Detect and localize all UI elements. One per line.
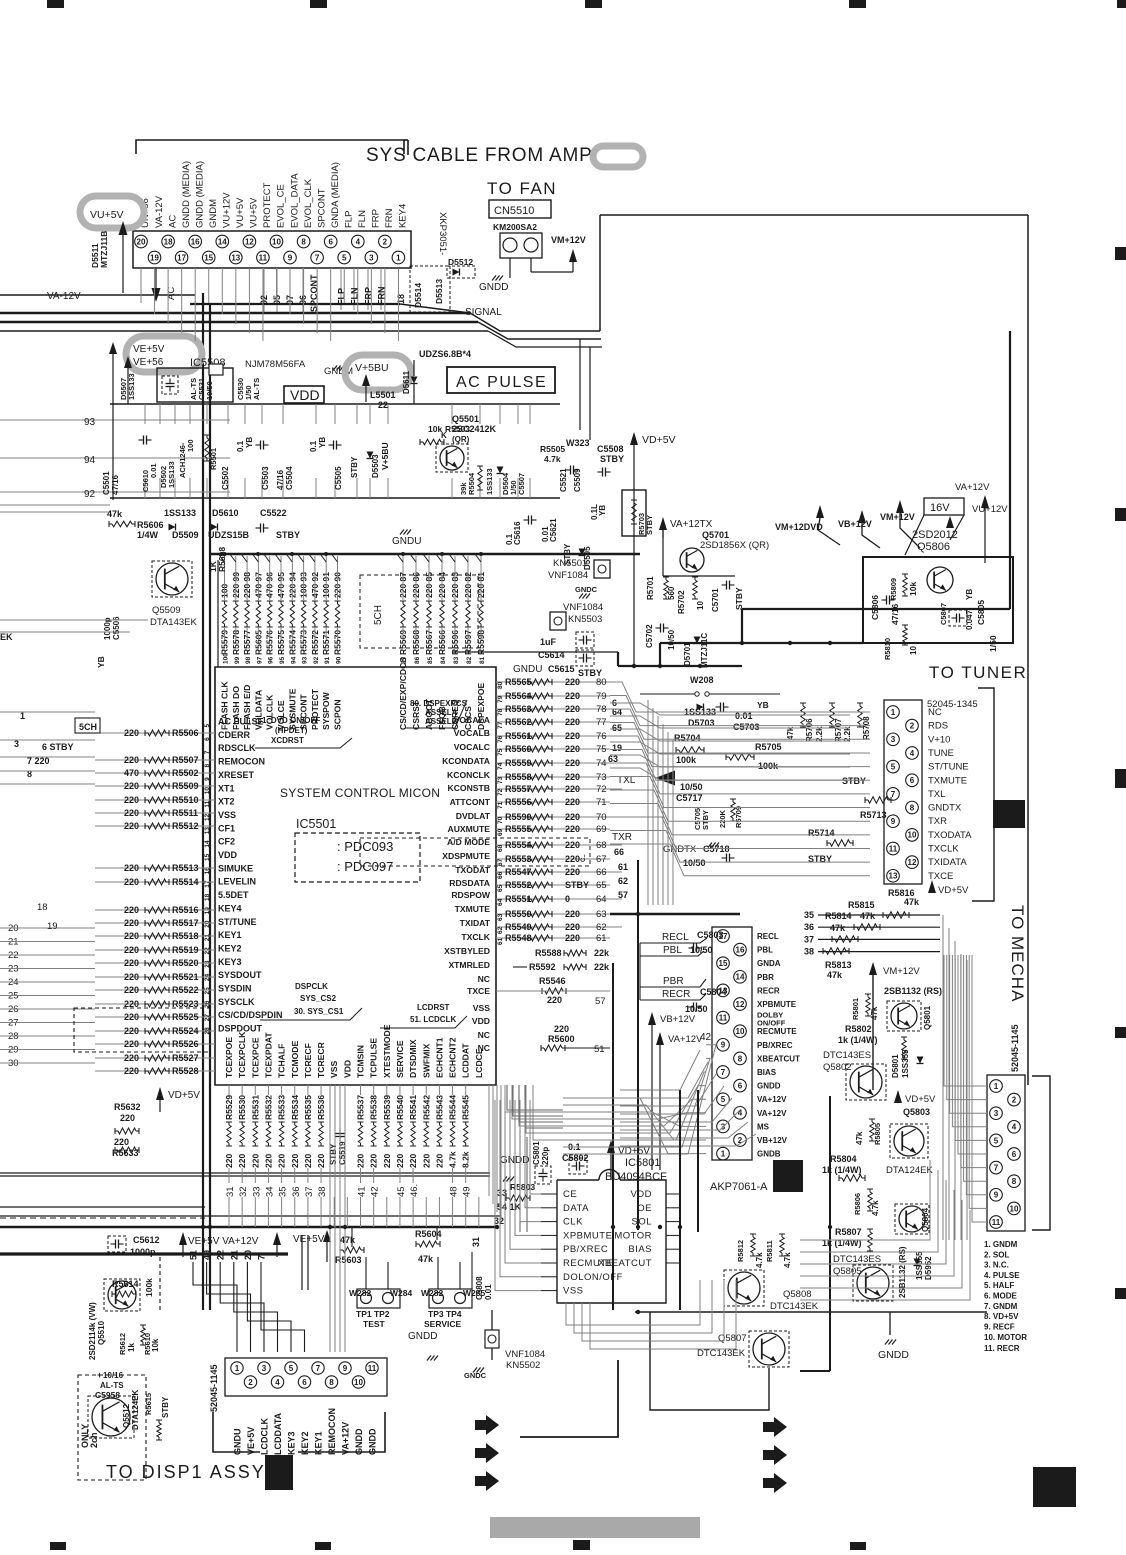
svg-text:VA+12V: VA+12V xyxy=(955,482,990,493)
svg-text:8: 8 xyxy=(301,237,306,246)
svg-text:VSS: VSS xyxy=(473,1003,490,1013)
svg-text:BIAS: BIAS xyxy=(757,1068,777,1077)
svg-text:1: 1 xyxy=(994,1082,999,1091)
svg-text:XTMRLED: XTMRLED xyxy=(448,960,490,970)
svg-text:0.047: 0.047 xyxy=(965,609,974,630)
svg-text:V+10: V+10 xyxy=(928,734,950,745)
svg-text:TXL: TXL xyxy=(928,789,945,800)
svg-text:R5709: R5709 xyxy=(734,806,743,828)
svg-text:RECL: RECL xyxy=(662,932,689,943)
svg-text:VU+5V: VU+5V xyxy=(90,209,124,221)
svg-text:R5708: R5708 xyxy=(862,716,871,740)
svg-text:R5805: R5805 xyxy=(873,1123,882,1145)
svg-text:GNDTX: GNDTX xyxy=(928,803,962,814)
svg-text:VDD: VDD xyxy=(472,1016,490,1026)
svg-text:D5503: D5503 xyxy=(371,454,380,478)
svg-text:17: 17 xyxy=(204,880,211,888)
svg-text:9. RECF: 9. RECF xyxy=(984,1322,1015,1331)
svg-text:TXODATA: TXODATA xyxy=(928,830,972,841)
svg-text:79: 79 xyxy=(497,695,504,703)
svg-text:15: 15 xyxy=(204,253,213,262)
svg-text:2: 2 xyxy=(248,1378,253,1387)
svg-text:PBL: PBL xyxy=(757,946,773,955)
svg-text:R5807: R5807 xyxy=(835,1227,862,1237)
svg-text:SIMUKE: SIMUKE xyxy=(218,863,253,873)
svg-text:68: 68 xyxy=(497,844,504,852)
svg-text:4: 4 xyxy=(356,237,361,246)
svg-text:NC: NC xyxy=(478,974,490,984)
svg-text:0.1: 0.1 xyxy=(309,440,318,452)
svg-text:2. SOL: 2. SOL xyxy=(984,1250,1009,1259)
svg-text:220: 220 xyxy=(124,985,139,995)
svg-text:GNDA (MEDIA): GNDA (MEDIA) xyxy=(330,162,341,228)
svg-text:GNDU: GNDU xyxy=(513,664,542,675)
svg-text:92: 92 xyxy=(84,489,96,500)
svg-text:C5801: C5801 xyxy=(532,1141,541,1165)
svg-text:VA+12V: VA+12V xyxy=(341,1422,351,1455)
svg-text:TXCE: TXCE xyxy=(928,871,953,882)
svg-text:D5513: D5513 xyxy=(434,279,444,304)
svg-text:TO FAN: TO FAN xyxy=(487,179,557,198)
svg-text:5CH: 5CH xyxy=(79,722,97,732)
svg-text:L5501: L5501 xyxy=(370,390,396,400)
svg-text:220: 220 xyxy=(124,795,139,805)
svg-text:KCONSTB: KCONSTB xyxy=(448,783,491,793)
svg-text:10: 10 xyxy=(696,601,705,610)
svg-text:C5615: C5615 xyxy=(548,664,575,674)
svg-text:31: 31 xyxy=(471,1237,481,1247)
svg-text:EK: EK xyxy=(0,632,13,642)
svg-text:Q5801: Q5801 xyxy=(923,1005,932,1030)
svg-text:W323: W323 xyxy=(566,438,590,448)
svg-text:R5518: R5518 xyxy=(172,931,199,941)
svg-text:ECHCNT2: ECHCNT2 xyxy=(448,1037,458,1078)
svg-text:0.1: 0.1 xyxy=(236,440,245,452)
svg-text:VU+12V: VU+12V xyxy=(222,192,233,228)
svg-text:R5520: R5520 xyxy=(172,958,199,968)
svg-text:220: 220 xyxy=(395,1154,405,1168)
svg-text:FRP: FRP xyxy=(371,209,382,228)
svg-text:SPCONT: SPCONT xyxy=(299,693,309,730)
svg-text:SYSMUTE: SYSMUTE xyxy=(287,688,297,730)
svg-text:51: 51 xyxy=(189,1250,199,1260)
svg-text:C5612: C5612 xyxy=(133,1235,160,1245)
svg-text:ABOOT: ABOOT xyxy=(424,698,434,730)
svg-text:V+5BU: V+5BU xyxy=(380,442,390,470)
svg-text:KN5503: KN5503 xyxy=(568,614,602,625)
svg-text:16: 16 xyxy=(736,945,745,954)
svg-text:R5603: R5603 xyxy=(335,1255,362,1265)
svg-text:220: 220 xyxy=(124,877,139,887)
svg-text:11: 11 xyxy=(992,1218,1001,1227)
svg-text:1k (1/4W): 1k (1/4W) xyxy=(822,1165,862,1175)
svg-text:1000p: 1000p xyxy=(130,1247,156,1257)
svg-text:TP1 TP2: TP1 TP2 xyxy=(356,1309,390,1319)
svg-text:PBR: PBR xyxy=(757,973,774,982)
svg-text:18: 18 xyxy=(164,237,173,246)
svg-text:GNDU: GNDU xyxy=(392,536,421,547)
svg-text:20: 20 xyxy=(243,1250,253,1260)
svg-text:LCDCE: LCDCE xyxy=(474,1048,484,1078)
svg-text:5: 5 xyxy=(342,253,347,262)
svg-text:57: 57 xyxy=(618,890,628,900)
svg-text:10. MOTOR: 10. MOTOR xyxy=(984,1333,1027,1342)
svg-text:220: 220 xyxy=(382,1154,392,1168)
svg-text:UDZS15B: UDZS15B xyxy=(208,530,250,540)
svg-text:9: 9 xyxy=(721,1041,726,1050)
svg-text:C5505: C5505 xyxy=(334,466,343,490)
svg-text:95: 95 xyxy=(279,656,286,664)
svg-text:1SS133: 1SS133 xyxy=(127,373,136,400)
svg-text:220: 220 xyxy=(124,958,139,968)
svg-text:TCPULSE: TCPULSE xyxy=(369,1038,379,1078)
svg-text:C5522: C5522 xyxy=(260,508,287,518)
svg-text:R5505: R5505 xyxy=(540,444,565,454)
svg-text:220: 220 xyxy=(277,1154,287,1168)
svg-text:TCMSIN: TCMSIN xyxy=(356,1045,366,1078)
svg-text:VA-12V: VA-12V xyxy=(154,195,165,228)
svg-text:CLK: CLK xyxy=(563,1217,583,1228)
svg-text:6: 6 xyxy=(738,1081,743,1090)
svg-text:66: 66 xyxy=(614,847,624,857)
svg-text:68: 68 xyxy=(596,840,607,851)
svg-text:TUNE: TUNE xyxy=(928,748,954,759)
svg-text:STBY: STBY xyxy=(276,530,300,540)
svg-text:VOCALB: VOCALB xyxy=(454,728,490,738)
svg-text:C5806: C5806 xyxy=(870,595,880,620)
svg-text:VA+12TX: VA+12TX xyxy=(670,519,713,530)
svg-text:92: 92 xyxy=(313,656,320,664)
svg-text:5. HALF: 5. HALF xyxy=(984,1281,1014,1290)
svg-text:CF2: CF2 xyxy=(218,837,235,847)
svg-text:36: 36 xyxy=(804,922,814,932)
svg-text:220: 220 xyxy=(250,1154,260,1168)
svg-text:70: 70 xyxy=(596,812,607,823)
svg-text:220: 220 xyxy=(565,867,580,877)
svg-text:2SC2412K: 2SC2412K xyxy=(452,424,497,434)
svg-text:64: 64 xyxy=(596,894,607,905)
svg-text:6 STBY: 6 STBY xyxy=(42,742,74,752)
svg-text:4: 4 xyxy=(1012,1123,1017,1132)
svg-text:YB: YB xyxy=(96,656,106,668)
svg-text:SCPON: SCPON xyxy=(333,699,343,730)
svg-text:CS/CD/EXP/CDCS: CS/CD/EXP/CDCS xyxy=(398,657,408,730)
svg-text:TXCLK: TXCLK xyxy=(928,844,959,855)
svg-text:ST/TUNE: ST/TUNE xyxy=(218,917,257,927)
svg-text:220: 220 xyxy=(565,797,580,807)
svg-text:R5538: R5538 xyxy=(369,1095,379,1120)
svg-text:VDD: VDD xyxy=(290,387,320,403)
svg-text:11: 11 xyxy=(889,844,898,853)
svg-text:TCEXPCE: TCEXPCE xyxy=(250,1037,260,1078)
svg-text:NJM78M56FA: NJM78M56FA xyxy=(245,359,306,370)
svg-text:63: 63 xyxy=(596,909,607,920)
svg-text:R5804: R5804 xyxy=(830,1154,857,1164)
svg-text:XDSPMUTE: XDSPMUTE xyxy=(442,851,490,861)
svg-text:64: 64 xyxy=(497,898,504,906)
svg-text:38: 38 xyxy=(804,947,814,957)
svg-text:R5545: R5545 xyxy=(461,1095,471,1120)
svg-text:PB/XREC: PB/XREC xyxy=(563,1244,608,1255)
svg-text:69: 69 xyxy=(497,828,504,836)
svg-text:1SS133: 1SS133 xyxy=(164,508,196,518)
svg-text:R5507: R5507 xyxy=(172,755,199,765)
svg-text:74: 74 xyxy=(497,762,504,770)
svg-text:77: 77 xyxy=(497,721,504,729)
svg-text:61: 61 xyxy=(497,937,504,945)
svg-text:47k: 47k xyxy=(870,1006,879,1020)
svg-text:RDSDATA: RDSDATA xyxy=(449,878,490,888)
svg-text:BU4094BCF: BU4094BCF xyxy=(605,1171,667,1183)
svg-text:47k: 47k xyxy=(827,970,843,980)
svg-text:48: 48 xyxy=(449,1186,460,1197)
svg-text:62: 62 xyxy=(596,922,607,933)
svg-text:19: 19 xyxy=(612,743,622,753)
svg-text:66: 66 xyxy=(596,867,607,878)
svg-text:220: 220 xyxy=(124,931,139,941)
svg-text:VM+12DVD: VM+12DVD xyxy=(775,522,823,532)
svg-text:PB/XREC: PB/XREC xyxy=(757,1041,793,1050)
svg-text:XKP3051-: XKP3051- xyxy=(437,212,448,255)
svg-text:XRESET: XRESET xyxy=(218,770,255,780)
svg-text:96: 96 xyxy=(268,656,275,664)
svg-text:7. GNDM: 7. GNDM xyxy=(984,1302,1018,1311)
svg-text:EVOL_CLK: EVOL_CLK xyxy=(303,178,314,228)
svg-text:Q5806: Q5806 xyxy=(917,541,950,553)
svg-text:1SS355: 1SS355 xyxy=(901,1049,910,1078)
svg-text:1/4W: 1/4W xyxy=(137,530,159,540)
svg-text:R5801: R5801 xyxy=(851,998,860,1020)
svg-text:FLN: FLN xyxy=(357,210,368,228)
svg-text:42: 42 xyxy=(700,1032,712,1043)
svg-text:220K: 220K xyxy=(718,809,727,828)
svg-text:12: 12 xyxy=(204,813,211,821)
svg-text:VA-12V: VA-12V xyxy=(47,291,81,302)
svg-text:220: 220 xyxy=(369,1154,379,1168)
svg-text:GNDD: GNDD xyxy=(479,282,508,293)
svg-text:2SD2114k (VW): 2SD2114k (VW) xyxy=(88,1302,97,1360)
svg-text:VB+12V: VB+12V xyxy=(660,1014,696,1025)
svg-text:FSQB: FSQB xyxy=(437,706,447,730)
svg-text:3: 3 xyxy=(262,1364,267,1373)
svg-text:11. RECR: 11. RECR xyxy=(984,1344,1020,1353)
svg-text:R5537: R5537 xyxy=(356,1095,366,1120)
svg-text:R5588: R5588 xyxy=(535,948,562,958)
svg-text:PROTECT: PROTECT xyxy=(310,688,320,730)
svg-text:220: 220 xyxy=(290,1154,300,1168)
svg-text:TCEXPDAT: TCEXPDAT xyxy=(263,1032,273,1078)
svg-text:2SB1132 (RS): 2SB1132 (RS) xyxy=(898,1246,907,1298)
svg-text:TO MECHA: TO MECHA xyxy=(1008,905,1027,1002)
svg-text:BIAS: BIAS xyxy=(628,1244,652,1255)
svg-text:R5522: R5522 xyxy=(172,985,199,995)
svg-text:220: 220 xyxy=(554,1024,569,1034)
svg-text:47/16: 47/16 xyxy=(111,474,120,495)
svg-text:220: 220 xyxy=(124,728,139,738)
svg-text:TO TUNER: TO TUNER xyxy=(929,663,1027,682)
svg-text:6: 6 xyxy=(1012,1150,1017,1159)
svg-text:D5611: D5611 xyxy=(402,370,411,394)
svg-text:1SS133: 1SS133 xyxy=(485,468,494,495)
svg-text:13: 13 xyxy=(889,872,898,881)
svg-text:10/50: 10/50 xyxy=(683,858,706,868)
svg-text:3: 3 xyxy=(994,1109,999,1118)
svg-text:EVOL_DATA: EVOL_DATA xyxy=(289,173,300,228)
svg-text:10: 10 xyxy=(354,1378,363,1387)
svg-text:R5701: R5701 xyxy=(646,576,655,600)
svg-text:SYS CABLE FROM AMP: SYS CABLE FROM AMP xyxy=(366,145,593,166)
svg-text:6: 6 xyxy=(302,1378,307,1387)
svg-text:47k: 47k xyxy=(107,509,123,519)
svg-text:R5813: R5813 xyxy=(825,960,852,970)
svg-text:65: 65 xyxy=(497,884,504,892)
svg-text:TXMUTE: TXMUTE xyxy=(455,904,491,914)
svg-text:R5543: R5543 xyxy=(434,1095,444,1120)
svg-text:63: 63 xyxy=(497,913,504,921)
svg-text:C5805: C5805 xyxy=(976,600,986,625)
svg-text:35: 35 xyxy=(278,1186,289,1197)
svg-text:47/16: 47/16 xyxy=(276,469,285,490)
svg-text:7: 7 xyxy=(316,1364,321,1373)
svg-text:1: 1 xyxy=(235,1364,240,1373)
svg-text:2: 2 xyxy=(910,722,915,731)
svg-text:TCRECF: TCRECF xyxy=(303,1043,313,1078)
svg-text:33: 33 xyxy=(251,1186,262,1197)
svg-text:18: 18 xyxy=(204,893,211,901)
svg-text:5: 5 xyxy=(289,1364,294,1373)
svg-text:4: 4 xyxy=(275,1378,280,1387)
svg-text:TXIDATA: TXIDATA xyxy=(928,857,967,868)
svg-text:C5621: C5621 xyxy=(549,518,558,542)
svg-text:9: 9 xyxy=(343,1364,348,1373)
svg-text:VD+5V: VD+5V xyxy=(938,885,969,896)
svg-text:DTC143EK: DTC143EK xyxy=(770,1301,819,1312)
svg-text:VD+5V: VD+5V xyxy=(642,434,676,446)
svg-text:R5536: R5536 xyxy=(316,1095,326,1120)
svg-text:22: 22 xyxy=(378,400,388,410)
svg-text:R5706: R5706 xyxy=(805,718,814,742)
svg-text:GNDA: GNDA xyxy=(757,959,781,968)
svg-text:4.7k: 4.7k xyxy=(871,1200,880,1216)
svg-text:220: 220 xyxy=(434,1154,444,1168)
svg-text:41: 41 xyxy=(357,1186,368,1197)
svg-text:KEY4: KEY4 xyxy=(218,903,242,913)
svg-text:76: 76 xyxy=(596,731,607,742)
svg-text:XPBMUTE: XPBMUTE xyxy=(563,1230,612,1241)
svg-text:32: 32 xyxy=(494,1216,504,1226)
svg-text:R5815: R5815 xyxy=(848,900,875,910)
svg-text:4.7k: 4.7k xyxy=(544,454,561,464)
svg-text:220: 220 xyxy=(124,1012,139,1022)
svg-text:76: 76 xyxy=(497,735,504,743)
svg-text:71: 71 xyxy=(497,801,504,809)
svg-text:70: 70 xyxy=(497,816,504,824)
svg-text:1. GNDM: 1. GNDM xyxy=(984,1240,1018,1249)
svg-text:R5615: R5615 xyxy=(144,1393,153,1415)
svg-text:VNF1084: VNF1084 xyxy=(548,570,588,581)
svg-text:220: 220 xyxy=(124,918,139,928)
svg-text:GNDD: GNDD xyxy=(354,1428,364,1455)
svg-text:10/50: 10/50 xyxy=(205,381,214,400)
svg-text:R5511: R5511 xyxy=(172,808,198,818)
svg-text:VDD: VDD xyxy=(218,850,238,860)
svg-text:R5702: R5702 xyxy=(677,590,686,614)
svg-text:220: 220 xyxy=(421,1154,431,1168)
svg-text:7: 7 xyxy=(994,1163,999,1172)
svg-text:67: 67 xyxy=(497,858,504,866)
svg-text:100k: 100k xyxy=(758,761,779,771)
svg-text:15: 15 xyxy=(719,959,728,968)
svg-text:R5539: R5539 xyxy=(382,1095,392,1120)
svg-text:C5509: C5509 xyxy=(573,468,582,492)
svg-text:VE+5V: VE+5V xyxy=(133,344,165,355)
svg-text:LCDDAT: LCDDAT xyxy=(461,1043,471,1078)
svg-text:220: 220 xyxy=(124,1039,139,1049)
svg-text:52045-1345: 52045-1345 xyxy=(927,699,978,710)
svg-text:0.01: 0.01 xyxy=(484,1284,493,1300)
svg-text:57: 57 xyxy=(595,996,606,1007)
svg-text:3: 3 xyxy=(369,253,374,262)
svg-text:84: 84 xyxy=(440,656,447,664)
svg-text:FRN: FRN xyxy=(384,208,395,228)
svg-text:W208: W208 xyxy=(690,675,714,685)
svg-text:220: 220 xyxy=(565,922,580,932)
svg-text:20: 20 xyxy=(204,920,211,928)
svg-text:R5502: R5502 xyxy=(172,768,199,778)
svg-text:Q5804: Q5804 xyxy=(921,1207,930,1232)
svg-text:100k: 100k xyxy=(676,755,697,765)
svg-text:20: 20 xyxy=(137,237,146,246)
svg-text:14: 14 xyxy=(218,237,227,246)
svg-text:8: 8 xyxy=(329,1378,334,1387)
svg-text:R5810: R5810 xyxy=(883,638,892,660)
svg-text:KEY2: KEY2 xyxy=(218,943,242,953)
svg-text:9: 9 xyxy=(204,777,211,781)
svg-text:46.: 46. xyxy=(409,1184,420,1197)
svg-text:10: 10 xyxy=(908,831,917,840)
svg-text:ST/TUNE: ST/TUNE xyxy=(928,762,969,773)
svg-text:TCEXPOE: TCEXPOE xyxy=(224,1037,234,1078)
svg-text:TO DISP1 ASSY: TO DISP1 ASSY xyxy=(106,1462,266,1482)
svg-text:7: 7 xyxy=(204,750,211,754)
svg-text:220: 220 xyxy=(565,731,580,741)
svg-text:AL-TS: AL-TS xyxy=(100,1381,124,1390)
svg-text:98: 98 xyxy=(245,656,252,664)
svg-text:220: 220 xyxy=(124,905,139,915)
svg-text:STBY: STBY xyxy=(734,587,744,610)
svg-text:220: 220 xyxy=(120,1113,135,1123)
svg-text:8: 8 xyxy=(204,764,211,768)
svg-text:R5531: R5531 xyxy=(250,1095,260,1120)
svg-text:1: 1 xyxy=(396,253,401,262)
svg-text:SIGNAL: SIGNAL xyxy=(465,307,502,318)
svg-text:220: 220 xyxy=(237,1154,247,1168)
svg-text:MTZJ11B: MTZJ11B xyxy=(99,231,109,268)
svg-text:14: 14 xyxy=(736,973,745,982)
svg-text:16V: 16V xyxy=(930,502,950,514)
svg-text:CSRST: CSRST xyxy=(411,700,421,730)
svg-text:XBEATCUT: XBEATCUT xyxy=(598,1258,652,1269)
svg-text:15: 15 xyxy=(204,853,211,861)
svg-text:C5702: C5702 xyxy=(645,624,654,648)
svg-text:LEVELIN: LEVELIN xyxy=(218,877,256,887)
svg-text:12: 12 xyxy=(736,1000,745,1009)
svg-text:RDSCLK: RDSCLK xyxy=(218,743,256,753)
svg-text:R5509: R5509 xyxy=(172,781,199,791)
svg-text:17: 17 xyxy=(177,253,186,262)
svg-text:0.01: 0.01 xyxy=(149,463,158,478)
svg-text:8: 8 xyxy=(1012,1177,1017,1186)
